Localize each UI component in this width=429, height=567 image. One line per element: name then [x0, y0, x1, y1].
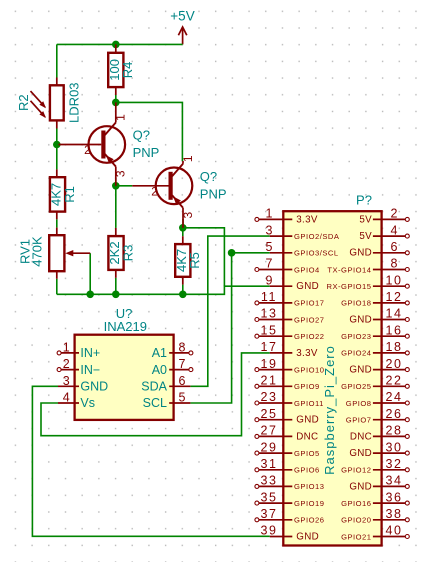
svg-text:3.3V: 3.3V [296, 348, 318, 359]
svg-text:34: 34 [385, 474, 402, 488]
wire Q2 emitter to junction [182, 219, 184, 228]
resistor R5 4K7 [174, 236, 202, 284]
svg-text:3: 3 [63, 374, 70, 388]
P1 pin 5 GPIO3/SCL [266, 240, 339, 258]
node junction Q1 emitter / Q2 base / R3 [112, 182, 120, 190]
svg-text:33: 33 [260, 474, 277, 488]
svg-text:GPIO12: GPIO12 [341, 466, 371, 475]
power symbol +5V [170, 9, 194, 45]
P1 pin 10 RX-GPIO15 [326, 273, 409, 291]
svg-text:19: 19 [260, 357, 277, 371]
svg-text:7: 7 [179, 357, 186, 371]
U1 pin 1 IN+ [57, 341, 100, 361]
wire R1 bottom to RV1 top [56, 219, 58, 227]
wire R3 bottom to rail [115, 278, 117, 295]
P1 pin 31 GPIO6 [255, 457, 320, 475]
svg-text:22: 22 [385, 374, 402, 388]
svg-text:GPIO26: GPIO26 [294, 516, 324, 525]
svg-text:RX-GPIO15: RX-GPIO15 [326, 282, 371, 291]
svg-text:GPIO11: GPIO11 [294, 399, 324, 408]
U1 pin 6 SDA [141, 374, 190, 394]
node junction RV1 wiper on rail [86, 291, 94, 299]
U1 pin 3 GND [58, 374, 108, 394]
U1 pin 2 IN− [57, 357, 100, 377]
svg-text:SDA: SDA [141, 380, 167, 394]
svg-text:PNP: PNP [133, 145, 160, 160]
svg-text:3.3V: 3.3V [296, 214, 318, 225]
svg-text:38: 38 [385, 507, 402, 521]
svg-text:GPIO18: GPIO18 [341, 299, 371, 308]
potentiometer RV1 470K [17, 228, 90, 279]
transistor Q1 PNP body [89, 123, 126, 167]
wire bottom rail [57, 286, 270, 294]
wire junction to Q2 base [116, 185, 133, 187]
P1 pin 6 GND [349, 240, 409, 259]
svg-text:GND: GND [349, 448, 372, 459]
svg-text:GPIO22: GPIO22 [294, 332, 324, 341]
svg-text:IN+: IN+ [80, 346, 100, 360]
svg-text:PNP: PNP [200, 186, 227, 201]
svg-text:GPIO25: GPIO25 [341, 382, 371, 391]
P1 pin 25 GND [255, 407, 319, 426]
svg-text:+5V: +5V [170, 9, 194, 24]
svg-text:GPIO23: GPIO23 [341, 332, 371, 341]
U1 pin 8 A1 [152, 341, 193, 361]
svg-text:Q?: Q? [200, 169, 217, 184]
P1 pin 26 GPIO7 [346, 407, 410, 425]
svg-text:2: 2 [391, 207, 398, 221]
svg-text:R1: R1 [62, 186, 77, 203]
wire junction to Q2 collector [116, 102, 183, 161]
svg-text:9: 9 [266, 273, 273, 287]
svg-text:GPIO6: GPIO6 [294, 466, 320, 475]
svg-text:GPIO16: GPIO16 [341, 499, 371, 508]
Q1 pin 3 emitter [114, 167, 128, 186]
svg-text:30: 30 [385, 440, 402, 454]
wire SDA net [190, 236, 269, 386]
svg-text:26: 26 [385, 407, 402, 421]
svg-text:1: 1 [114, 114, 128, 121]
svg-text:GPIO27: GPIO27 [294, 315, 324, 324]
P1 pin 37 GPIO26 [255, 507, 325, 525]
svg-text:GPIO19: GPIO19 [294, 499, 324, 508]
svg-text:GND: GND [296, 415, 319, 426]
svg-text:TX-GPIO14: TX-GPIO14 [327, 265, 371, 274]
svg-text:35: 35 [260, 490, 277, 504]
svg-text:GPIO9: GPIO9 [294, 382, 320, 391]
svg-text:DNC: DNC [296, 431, 318, 442]
wire RV1 bottom to rail [56, 279, 58, 295]
wire SCL net [190, 253, 269, 403]
svg-text:29: 29 [260, 440, 277, 454]
svg-text:40: 40 [385, 524, 402, 538]
P1 pin 3 GPIO2/SDA [266, 223, 340, 241]
svg-text:4: 4 [391, 223, 398, 237]
P1 pin 29 GPIO5 [255, 440, 320, 458]
svg-text:5V: 5V [359, 214, 372, 225]
svg-text:1: 1 [266, 207, 273, 221]
node junction Q2 emitter / R5 [179, 224, 187, 232]
svg-text:1: 1 [181, 155, 195, 162]
svg-text:15: 15 [260, 323, 277, 337]
svg-text:2: 2 [84, 145, 90, 157]
P1 pin 19 GPIO10 [255, 357, 325, 375]
Q1 pin 2 base [59, 145, 102, 158]
svg-text:R3: R3 [120, 245, 135, 262]
node junction R4/Q1/Q2 link [112, 99, 120, 107]
P1 pin 36 GPIO16 [341, 490, 409, 508]
P1 pin 8 TX-GPIO14 [327, 257, 409, 275]
P1 pin 11 GPIO17 [255, 290, 325, 308]
svg-text:10: 10 [385, 273, 402, 287]
U1 pin 5 SCL [143, 391, 191, 411]
svg-text:P?: P? [356, 193, 372, 208]
P1 pin 18 GPIO24 [341, 340, 409, 358]
wire RV1 wiper down [89, 253, 91, 294]
P1 pin 2 5V [359, 207, 409, 226]
svg-text:7: 7 [266, 257, 273, 271]
svg-text:16: 16 [385, 323, 402, 337]
svg-text:GPIO4: GPIO4 [294, 265, 320, 274]
P1 pin 34 GND [349, 474, 409, 493]
wire LDR top [56, 44, 58, 77]
svg-text:1: 1 [63, 341, 70, 355]
svg-text:GPIO17: GPIO17 [294, 299, 324, 308]
Q2 pin 1 collector [181, 155, 195, 164]
svg-text:2: 2 [151, 187, 157, 199]
P1 pin 39 GND [260, 524, 319, 543]
svg-text:470K: 470K [30, 236, 45, 267]
svg-text:GPIO7: GPIO7 [346, 416, 372, 425]
P1 pin 33 GPIO13 [255, 474, 325, 492]
transistor Q2 PNP body [156, 164, 193, 208]
node junction SCL corner [228, 249, 236, 257]
svg-text:GPIO21: GPIO21 [341, 532, 371, 541]
svg-text:GPIO8: GPIO8 [346, 399, 372, 408]
svg-text:Vs: Vs [80, 396, 95, 410]
svg-text:DNC: DNC [350, 431, 372, 442]
svg-text:GND: GND [296, 281, 319, 292]
wire R5 bottom to rail [182, 285, 184, 295]
P1 pin 24 GPIO8 [346, 390, 410, 408]
op-amp U1 INA219 body and labels [75, 306, 174, 420]
svg-text:GND: GND [80, 380, 108, 394]
P1 pin 1 3.3V [255, 207, 318, 226]
P1 pin 16 GPIO23 [341, 323, 409, 341]
P1 pin 28 DNC [350, 424, 409, 443]
svg-text:R5: R5 [187, 252, 202, 269]
svg-text:8: 8 [179, 341, 186, 355]
Q1 labels Q? PNP [133, 128, 160, 160]
svg-text:24: 24 [385, 390, 402, 404]
node junction LDR/R1/Q1 base [53, 141, 61, 149]
svg-text:R2: R2 [16, 94, 31, 111]
svg-text:GND: GND [349, 314, 372, 325]
svg-text:17: 17 [260, 340, 277, 354]
resistor R1 4K7 [49, 169, 77, 219]
wire LDR bottom to junction [56, 129, 58, 145]
svg-text:GPIO5: GPIO5 [294, 449, 320, 458]
wire Vs to 3.3V pin 17 [41, 353, 270, 436]
P1 pin 30 GND [349, 440, 409, 459]
U1 pin 4 Vs [58, 391, 95, 411]
P1 pin 23 GPIO11 [255, 390, 324, 408]
svg-text:3: 3 [181, 211, 195, 218]
P1 pin 9 GND [266, 273, 319, 292]
svg-text:25: 25 [260, 407, 277, 421]
node junction R5 bottom on rail [179, 291, 187, 299]
svg-text:Q?: Q? [133, 128, 150, 143]
svg-text:13: 13 [260, 307, 277, 321]
node junction R3 bottom on rail [112, 291, 120, 299]
svg-text:R4: R4 [120, 62, 135, 79]
Q2 pin 2 base [132, 186, 168, 199]
svg-text:27: 27 [260, 424, 277, 438]
svg-text:A1: A1 [152, 346, 167, 360]
svg-text:GPIO3/SCL: GPIO3/SCL [294, 249, 339, 258]
svg-text:GND: GND [349, 365, 372, 376]
svg-text:6: 6 [391, 240, 398, 254]
svg-text:5V: 5V [359, 231, 372, 242]
node junction at R4 top [112, 41, 120, 49]
wire R4 bottom junction [115, 95, 117, 102]
P1 pin 17 3.3V [260, 340, 317, 359]
wire R5 top [182, 228, 184, 236]
svg-text:GND: GND [349, 481, 372, 492]
svg-text:GND: GND [349, 248, 372, 259]
Q1 pin 1 collector [114, 102, 128, 122]
svg-text:A0: A0 [152, 363, 167, 377]
resistor R4 100 [107, 44, 135, 95]
svg-text:39: 39 [260, 524, 277, 538]
svg-text:14: 14 [385, 307, 402, 321]
P1 pin 27 DNC [255, 424, 319, 443]
P1 pin 7 GPIO4 [255, 257, 320, 275]
svg-text:LDR03: LDR03 [67, 82, 82, 122]
P1 pin 35 GPIO19 [255, 490, 325, 508]
svg-text:5: 5 [179, 391, 186, 405]
U1 pin 7 A0 [152, 357, 193, 377]
svg-text:28: 28 [385, 424, 402, 438]
svg-text:SCL: SCL [143, 396, 167, 410]
svg-text:IN−: IN− [80, 363, 100, 377]
svg-text:8: 8 [391, 257, 398, 271]
svg-text:18: 18 [385, 340, 402, 354]
P1 pin 32 GPIO12 [341, 457, 409, 475]
svg-text:GND: GND [296, 531, 319, 542]
wire +5V rail [57, 43, 183, 45]
P1 pin 13 GPIO27 [255, 307, 325, 325]
P1 pin 38 GPIO20 [341, 507, 409, 525]
Q2 pin 3 emitter [181, 208, 195, 228]
svg-text:INA219: INA219 [104, 319, 147, 334]
P1 pin 4 5V [359, 223, 409, 242]
svg-text:GPIO20: GPIO20 [341, 516, 371, 525]
svg-text:31: 31 [260, 457, 277, 471]
svg-text:2: 2 [63, 357, 70, 371]
svg-text:3: 3 [266, 223, 273, 237]
svg-text:12: 12 [385, 290, 402, 304]
svg-text:3: 3 [114, 170, 128, 177]
svg-text:GPIO2/SDA: GPIO2/SDA [294, 232, 340, 241]
wire GND INA219 to pin 39 [32, 386, 269, 536]
svg-text:23: 23 [260, 390, 277, 404]
wire junction to R1 top [56, 145, 58, 170]
connector P1 Raspberry_Pi_Zero body and labels [283, 193, 381, 546]
svg-text:GPIO24: GPIO24 [341, 349, 371, 358]
svg-text:5: 5 [266, 240, 273, 254]
P1 pin 40 GPIO21 [341, 524, 409, 542]
svg-text:32: 32 [385, 457, 402, 471]
Q2 labels Q? PNP [200, 169, 227, 201]
resistor R3 2K2 [107, 228, 135, 278]
svg-text:36: 36 [385, 490, 402, 504]
P1 pin 12 GPIO18 [341, 290, 409, 308]
wire Q1 emitter to junction [115, 178, 117, 186]
wire Q2 emitter node to GND pin 9 [183, 228, 225, 286]
svg-text:6: 6 [179, 374, 186, 388]
P1 pin 22 GPIO25 [341, 374, 409, 392]
svg-text:20: 20 [385, 357, 402, 371]
svg-text:GPIO13: GPIO13 [294, 482, 324, 491]
svg-text:21: 21 [260, 374, 277, 388]
P1 pin 20 GND [349, 357, 409, 376]
P1 pin 15 GPIO22 [255, 323, 325, 341]
wire junction to R3 top [115, 186, 117, 228]
svg-text:GPIO10: GPIO10 [294, 365, 324, 374]
svg-text:37: 37 [260, 507, 277, 521]
svg-text:11: 11 [261, 290, 277, 304]
P1 pin 21 GPIO9 [255, 374, 320, 392]
photoresistor R2 LDR03 [16, 78, 82, 129]
P1 pin 14 GND [349, 307, 409, 326]
svg-text:4: 4 [63, 391, 70, 405]
